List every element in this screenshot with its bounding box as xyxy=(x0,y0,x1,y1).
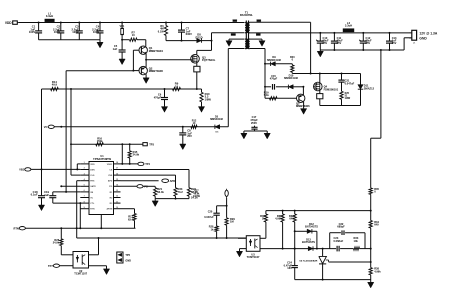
ground under C9 xyxy=(161,107,167,113)
svg-text:150k: 150k xyxy=(97,139,103,143)
svg-text:0.047uF: 0.047uF xyxy=(345,81,355,85)
svg-text:GND: GND xyxy=(419,37,427,41)
svg-text:FRS: FRS xyxy=(90,181,95,183)
resistor R29 1M xyxy=(226,198,228,218)
ground under R10 xyxy=(198,107,204,113)
svg-text:100V: 100V xyxy=(93,30,99,34)
svg-text:TCMT1107: TCMT1107 xyxy=(247,255,260,259)
svg-text:24.9k: 24.9k xyxy=(133,153,140,157)
polarity dot aux xyxy=(231,34,236,36)
svg-text:TP7: TP7 xyxy=(48,264,53,268)
resistor R38 4.99k divider bottom xyxy=(369,268,372,275)
pin R18 of U1 xyxy=(114,163,121,165)
wire opto U3 collector xyxy=(260,237,266,239)
svg-text:63.4k: 63.4k xyxy=(157,190,164,194)
pin L7 of U1 xyxy=(80,197,89,199)
wire VC tap to pin L5 xyxy=(60,185,62,187)
svg-text:VB: VB xyxy=(90,192,93,194)
resistor R22 24.9k xyxy=(187,188,190,197)
wire aux bottom xyxy=(228,48,244,50)
wire fb gnd rail y279.9 xyxy=(295,279,371,281)
ground aux top xyxy=(228,39,230,41)
diode D9 MMSD4148 xyxy=(271,62,276,66)
wire gate drive to Q3 xyxy=(146,59,191,61)
inductor L2 xyxy=(343,29,354,32)
transistor Q2 MMBT3906 xyxy=(139,66,147,74)
wire TL431 ref xyxy=(326,259,329,261)
pin R10 of U1 xyxy=(114,208,121,210)
ground Q5 emitter xyxy=(303,102,305,109)
capacitor C5 on gate supply xyxy=(121,35,123,50)
capacitor C19 xyxy=(52,192,54,196)
svg-text:TP4: TP4 xyxy=(145,162,150,166)
wire lower rail joining C1-C4 xyxy=(39,39,100,41)
svg-text:100V: 100V xyxy=(72,30,78,34)
wire VB feed vertical x41.5 xyxy=(41,89,43,195)
svg-text:2: 2 xyxy=(409,38,411,40)
wire TP7 to opto xyxy=(60,265,74,267)
wire fb top rail y210.6 xyxy=(266,210,371,212)
capacitor C8 VC decoupling xyxy=(182,126,184,128)
svg-text:ARTN: ARTN xyxy=(107,208,113,211)
polarity dot secondary top xyxy=(257,20,261,22)
svg-text:R3: R3 xyxy=(110,203,114,205)
wire IC bottom pin down xyxy=(100,215,102,229)
capacitor C4 2.2uF 100V xyxy=(99,22,101,24)
svg-text:MMBT3906: MMBT3906 xyxy=(296,104,310,108)
svg-text:10: 10 xyxy=(193,122,196,125)
pin R12 of U1 xyxy=(114,197,121,199)
svg-text:25V: 25V xyxy=(392,41,397,45)
capacitor C7 snubber xyxy=(181,22,183,24)
wire C15 D10 branch y86.8 xyxy=(264,86,266,88)
ground input filter xyxy=(99,40,101,43)
svg-text:C20: C20 xyxy=(208,211,213,214)
svg-text:649: 649 xyxy=(374,223,379,227)
svg-text:R1: R1 xyxy=(110,192,114,194)
svg-text:470pF: 470pF xyxy=(270,77,278,81)
polarity dot secondary bottom xyxy=(256,34,260,36)
resistor R9 cs filter xyxy=(173,87,181,90)
svg-text:MMSD4148: MMSD4148 xyxy=(210,118,223,121)
svg-text:VB1: VB1 xyxy=(19,168,25,172)
svg-text:10: 10 xyxy=(175,84,178,88)
transformer secondary bottom winding xyxy=(247,39,250,48)
ground under C18 xyxy=(38,205,44,211)
svg-text:TP5: TP5 xyxy=(125,254,130,257)
pin L6 of U1 xyxy=(80,191,89,193)
resistor R21 63.4k xyxy=(154,188,157,197)
diode D5 on VC rail xyxy=(215,125,220,129)
svg-text:4.99k: 4.99k xyxy=(275,217,282,221)
wire C20 branch xyxy=(217,205,227,207)
resistor R13 Q4 source xyxy=(319,89,321,94)
svg-text:+: + xyxy=(316,39,318,43)
capacitor C10 xyxy=(319,32,321,34)
wire Q4 drain xyxy=(319,74,321,85)
svg-text:D5: D5 xyxy=(216,131,220,133)
svg-text:GATE: GATE xyxy=(90,185,96,188)
svg-text:1M: 1M xyxy=(230,220,234,224)
wire pin R17 to R22 divider xyxy=(121,169,190,171)
capacitor C11 xyxy=(333,32,335,34)
svg-text:J1: J1 xyxy=(413,43,416,45)
svg-text:1/8W: 1/8W xyxy=(345,97,351,100)
svg-text:3.3uH: 3.3uH xyxy=(345,24,352,28)
shunt reg U4 TL431AIDBZR xyxy=(322,249,324,257)
pin R13 of U1 xyxy=(114,191,121,193)
svg-text:FQT7N10L: FQT7N10L xyxy=(202,58,216,62)
transformer aux winding xyxy=(245,39,248,48)
wire gate-drive vertical x66.1 xyxy=(65,71,67,192)
wire RTN rail xyxy=(25,227,135,229)
capacitor C17 470pF Y-cap xyxy=(254,126,256,128)
svg-text:CTL: CTL xyxy=(90,203,95,205)
wire pin R15 to APD xyxy=(121,180,159,182)
resistor R30 2k xyxy=(265,211,267,214)
svg-text:DEN: DEN xyxy=(90,169,95,171)
ground under C5 xyxy=(119,59,125,65)
pin R15 of U1 xyxy=(114,180,121,182)
pin R16 of U1 xyxy=(114,174,121,176)
svg-text:470pF: 470pF xyxy=(154,95,162,99)
zener VR1 xyxy=(121,22,123,24)
svg-text:649: 649 xyxy=(289,217,294,221)
svg-text:630V: 630V xyxy=(186,32,192,36)
ground output return xyxy=(319,50,321,51)
wire primary return rail y238 xyxy=(77,237,247,239)
ground Q2 collector xyxy=(145,74,147,78)
wire fb bottom rail y248.6 with comp network xyxy=(260,248,308,250)
svg-text:1uF: 1uF xyxy=(44,193,49,197)
svg-text:63.4: 63.4 xyxy=(128,217,134,221)
node PG oval xyxy=(137,185,143,188)
svg-text:MMBT3906: MMBT3906 xyxy=(149,69,164,73)
wire cs vertical x71 xyxy=(70,88,72,90)
svg-text:12V @ 1.3A: 12V @ 1.3A xyxy=(419,31,437,35)
wire snubber node xyxy=(166,40,197,42)
svg-text:GND: GND xyxy=(125,259,131,262)
wire current sense rail y89 xyxy=(42,88,202,90)
wire secondary lower vertical xyxy=(264,49,266,99)
svg-text:1/8W: 1/8W xyxy=(205,98,212,102)
svg-text:BAT54STS: BAT54STS xyxy=(305,225,318,229)
capacitor C21 0.047uF xyxy=(341,74,343,80)
svg-text:VR1: VR1 xyxy=(119,25,124,28)
resistor R11 sense xyxy=(196,61,198,66)
svg-text:VC: VC xyxy=(44,125,48,129)
wire snubber box bottom xyxy=(320,105,361,107)
wire VB1 to IC xyxy=(31,168,80,170)
node APD oval xyxy=(162,179,169,183)
svg-text:1/16W: 1/16W xyxy=(193,195,201,198)
wire VC rail y127 xyxy=(54,126,228,128)
svg-text:0.1uF: 0.1uF xyxy=(31,193,38,197)
svg-text:TP3: TP3 xyxy=(149,143,154,147)
wire R16 to TP3 plug xyxy=(70,143,72,145)
wire opto U3 anode from rail xyxy=(238,237,246,239)
node RTN oval connector xyxy=(19,227,25,230)
svg-text:49.9: 49.9 xyxy=(52,83,58,87)
wire pin R16 to R23 xyxy=(121,174,176,176)
pin L8 of U1 xyxy=(80,202,89,204)
wire feedback sense from output xyxy=(380,50,382,138)
svg-text:0: 0 xyxy=(292,59,294,62)
svg-text:APD: APD xyxy=(170,179,176,183)
svg-text:4.99k: 4.99k xyxy=(374,269,381,273)
inductor L1 3.3uH xyxy=(45,19,55,22)
capacitor C22 680pF xyxy=(341,230,343,235)
svg-text:73.2: 73.2 xyxy=(178,190,184,194)
resistor R28 1k xyxy=(216,215,218,226)
wire drain node vertical xyxy=(211,33,213,51)
wire main input rail VDD y22.5 xyxy=(18,22,244,24)
capacitor C18 VB decoupling xyxy=(38,195,45,197)
resistor R14 on sense rail xyxy=(51,87,59,90)
node VB1 oval connector xyxy=(25,168,31,171)
resistor R15 24.9k xyxy=(129,143,131,145)
ground secondary winding xyxy=(250,38,262,40)
resistor R26 24.9k xyxy=(60,228,62,239)
svg-text:TCMT1107: TCMT1107 xyxy=(74,272,87,276)
diode D8 clamp xyxy=(197,38,202,42)
wire pin R14 PG line xyxy=(121,185,138,187)
node VC oval connector xyxy=(48,125,54,128)
svg-text:R2: R2 xyxy=(110,197,114,199)
optocoupler U3 TCMT1107 xyxy=(246,236,260,252)
pin L9 of U1 xyxy=(80,208,89,210)
svg-text:PG: PG xyxy=(109,186,112,188)
svg-text:680pF: 680pF xyxy=(337,225,345,229)
resistor R17 63.4 xyxy=(133,214,136,221)
ground under C8 xyxy=(180,144,186,150)
svg-text:RTN: RTN xyxy=(90,209,95,211)
svg-text:MMSD4148: MMSD4148 xyxy=(284,76,298,80)
svg-text:25V: 25V xyxy=(337,41,342,45)
svg-text:BAT54STS: BAT54STS xyxy=(302,240,315,244)
wire pin R18 to TP4 xyxy=(121,163,138,165)
capacitor C24 0.47uF 16V xyxy=(292,265,298,267)
node TP4 oval xyxy=(138,162,144,165)
capacitor C1 0.1uF 100V xyxy=(38,22,40,24)
wire pin L8 to RTN xyxy=(79,202,81,204)
resistor R19 5.1k xyxy=(270,97,278,100)
resistor R12 on VC rail xyxy=(191,125,197,128)
mosfet Q4 sync FET xyxy=(314,82,323,91)
capacitor C23 0.068uF comp xyxy=(336,246,338,252)
ground Y-cap right xyxy=(266,131,268,133)
capacitor C20 0.047uF xyxy=(213,212,219,214)
svg-text:CLS: CLS xyxy=(90,175,95,177)
optocoupler U2 TCMT1107 xyxy=(73,252,89,269)
svg-text:3.3uH: 3.3uH xyxy=(46,14,53,18)
diode D12 BAT54STS xyxy=(295,230,307,232)
svg-text:FDMS86101: FDMS86101 xyxy=(324,87,339,91)
resistor R20 xyxy=(291,64,293,65)
pin L5 of U1 xyxy=(80,185,89,187)
resistor R32 649 xyxy=(294,211,296,214)
svg-text:0.1W: 0.1W xyxy=(158,30,164,33)
capacitor C13 xyxy=(389,32,391,34)
resistor R33 10k comp xyxy=(354,247,360,250)
svg-text:25V: 25V xyxy=(187,134,192,138)
pin L4 of U1 xyxy=(80,180,89,182)
svg-text:25V: 25V xyxy=(366,41,371,45)
wire D12 to fb rail xyxy=(316,231,318,248)
svg-text:PA2467NL: PA2467NL xyxy=(240,13,253,17)
svg-text:VC: VC xyxy=(90,197,93,199)
wire J1 gnd pin xyxy=(404,37,412,39)
svg-text:25V: 25V xyxy=(323,41,328,45)
svg-text:APD: APD xyxy=(108,180,113,183)
wire output return rail xyxy=(320,49,404,51)
diode D13 BAT54STS xyxy=(308,246,313,250)
svg-text:5.1k: 5.1k xyxy=(264,93,270,97)
svg-text:+: + xyxy=(359,39,361,43)
connector TP3 plug xyxy=(143,143,147,146)
wire Q5 collector xyxy=(302,87,304,95)
svg-text:0.068uF: 0.068uF xyxy=(334,239,344,243)
ground Y-cap left xyxy=(243,131,245,133)
wire secondary output xyxy=(250,32,412,34)
svg-text:16V: 16V xyxy=(287,266,292,270)
wire emitters junction to gate xyxy=(145,54,147,67)
resistor R6 snubber xyxy=(165,22,167,24)
transformer core xyxy=(245,21,247,50)
transistor Q5 MMBT3906 xyxy=(265,97,297,99)
svg-text:U4 TL431AIDBZR: U4 TL431AIDBZR xyxy=(299,259,317,262)
svg-text:VDD: VDD xyxy=(5,21,12,25)
wire branch to pin R18 wire xyxy=(121,143,123,145)
wire secondary lower pin xyxy=(250,48,265,50)
transformer secondary top winding xyxy=(247,23,250,33)
wire resistor commons xyxy=(155,198,189,200)
wire to opto U2 anode xyxy=(61,254,73,256)
capacitor C3 2.2uF 100V xyxy=(78,22,80,24)
svg-text:10k: 10k xyxy=(354,239,359,243)
wire secondary top to rail xyxy=(250,21,311,23)
svg-text:MMSD4148: MMSD4148 xyxy=(267,58,281,62)
wire snubber box right xyxy=(360,74,362,106)
ground divider xyxy=(368,282,374,288)
svg-text:250V: 250V xyxy=(251,121,257,125)
svg-text:1uF: 1uF xyxy=(113,47,118,51)
pin R14 of U1 xyxy=(114,185,121,187)
capacitor C9 cs filter xyxy=(164,88,166,90)
pin L2 of U1 xyxy=(80,169,89,171)
wire base tie Q1 Q2 xyxy=(133,49,139,51)
svg-text:MMBT3904: MMBT3904 xyxy=(149,49,164,53)
connector TP5 GND test points xyxy=(117,252,123,263)
wire base drive from IC gate pin xyxy=(66,70,133,72)
resistor R31 4.99k xyxy=(282,211,284,214)
transistor Q1 MMBT3904 xyxy=(145,40,147,47)
capacitor C2 2.2uF 100V xyxy=(60,22,62,24)
svg-text:1k: 1k xyxy=(211,228,214,231)
wire pin L1 tie to VB1 xyxy=(77,163,80,165)
pin R11 of U1 xyxy=(114,202,121,204)
wire opto U2 emitter gnd xyxy=(89,265,107,267)
resistor R23 73.2k xyxy=(174,188,177,197)
ground resistor commons xyxy=(154,199,156,201)
jumper J3 xyxy=(225,190,228,196)
wire pin R10 to R17 xyxy=(121,208,135,210)
connector J1 output xyxy=(412,30,417,40)
svg-text:CS: CS xyxy=(109,169,113,171)
svg-text:VDD: VDD xyxy=(90,164,95,166)
svg-text:TPS23753PW: TPS23753PW xyxy=(93,157,111,161)
resistor R34 649 divider top xyxy=(369,221,372,229)
svg-text:SMAZ12: SMAZ12 xyxy=(364,86,375,90)
wire D9 branch y63.8 xyxy=(264,63,266,65)
wire gate supply node y73.5 xyxy=(292,73,360,75)
resistor R25 51 xyxy=(340,91,343,99)
ground opto U2 xyxy=(103,269,109,275)
resistor R7 gate driver collector xyxy=(122,39,129,41)
diode D11 zener xyxy=(358,85,363,90)
diode D10 MMSD4148 xyxy=(288,85,293,89)
wire opto U3 cathode to gnd xyxy=(240,248,247,250)
capacitor C15 470pF xyxy=(272,84,274,90)
connector J_VDD input plug xyxy=(13,21,18,24)
svg-text:100V: 100V xyxy=(29,30,35,34)
wire aux return vertical x228.3 xyxy=(227,49,229,127)
ground opto U3 xyxy=(236,251,242,257)
resistor R35 0 xyxy=(369,188,372,195)
svg-text:ES1D: ES1D xyxy=(195,35,202,39)
pin L1 of U1 xyxy=(80,163,89,165)
pin L3 of U1 xyxy=(80,174,89,176)
op-amp U1 TPS23753PW controller IC xyxy=(89,162,114,215)
wire pin L4 down to RTN xyxy=(77,180,81,182)
resistor R16 150k xyxy=(96,143,104,146)
svg-text:100V: 100V xyxy=(54,30,60,34)
resistor R10 sense to gnd xyxy=(201,89,203,92)
wire aux top xyxy=(229,38,245,40)
svg-text:VSS: VSS xyxy=(108,175,113,177)
polarity dot primary xyxy=(233,20,237,22)
pin R17 of U1 xyxy=(114,169,121,171)
wire primary bottom to drain xyxy=(212,32,245,34)
svg-text:0.047uF: 0.047uF xyxy=(204,216,214,219)
wire comp loop box xyxy=(329,233,331,249)
svg-text:VDD1: VDD1 xyxy=(107,164,113,166)
mosfet Q3 main switch xyxy=(191,55,200,64)
node TP7 oval xyxy=(53,264,59,267)
wire opto U2 collector up xyxy=(89,254,99,256)
svg-text:24.9k: 24.9k xyxy=(53,241,60,245)
capacitor C12 xyxy=(362,32,364,34)
transformer primary winding xyxy=(245,23,248,33)
svg-text:RTN: RTN xyxy=(13,226,18,230)
